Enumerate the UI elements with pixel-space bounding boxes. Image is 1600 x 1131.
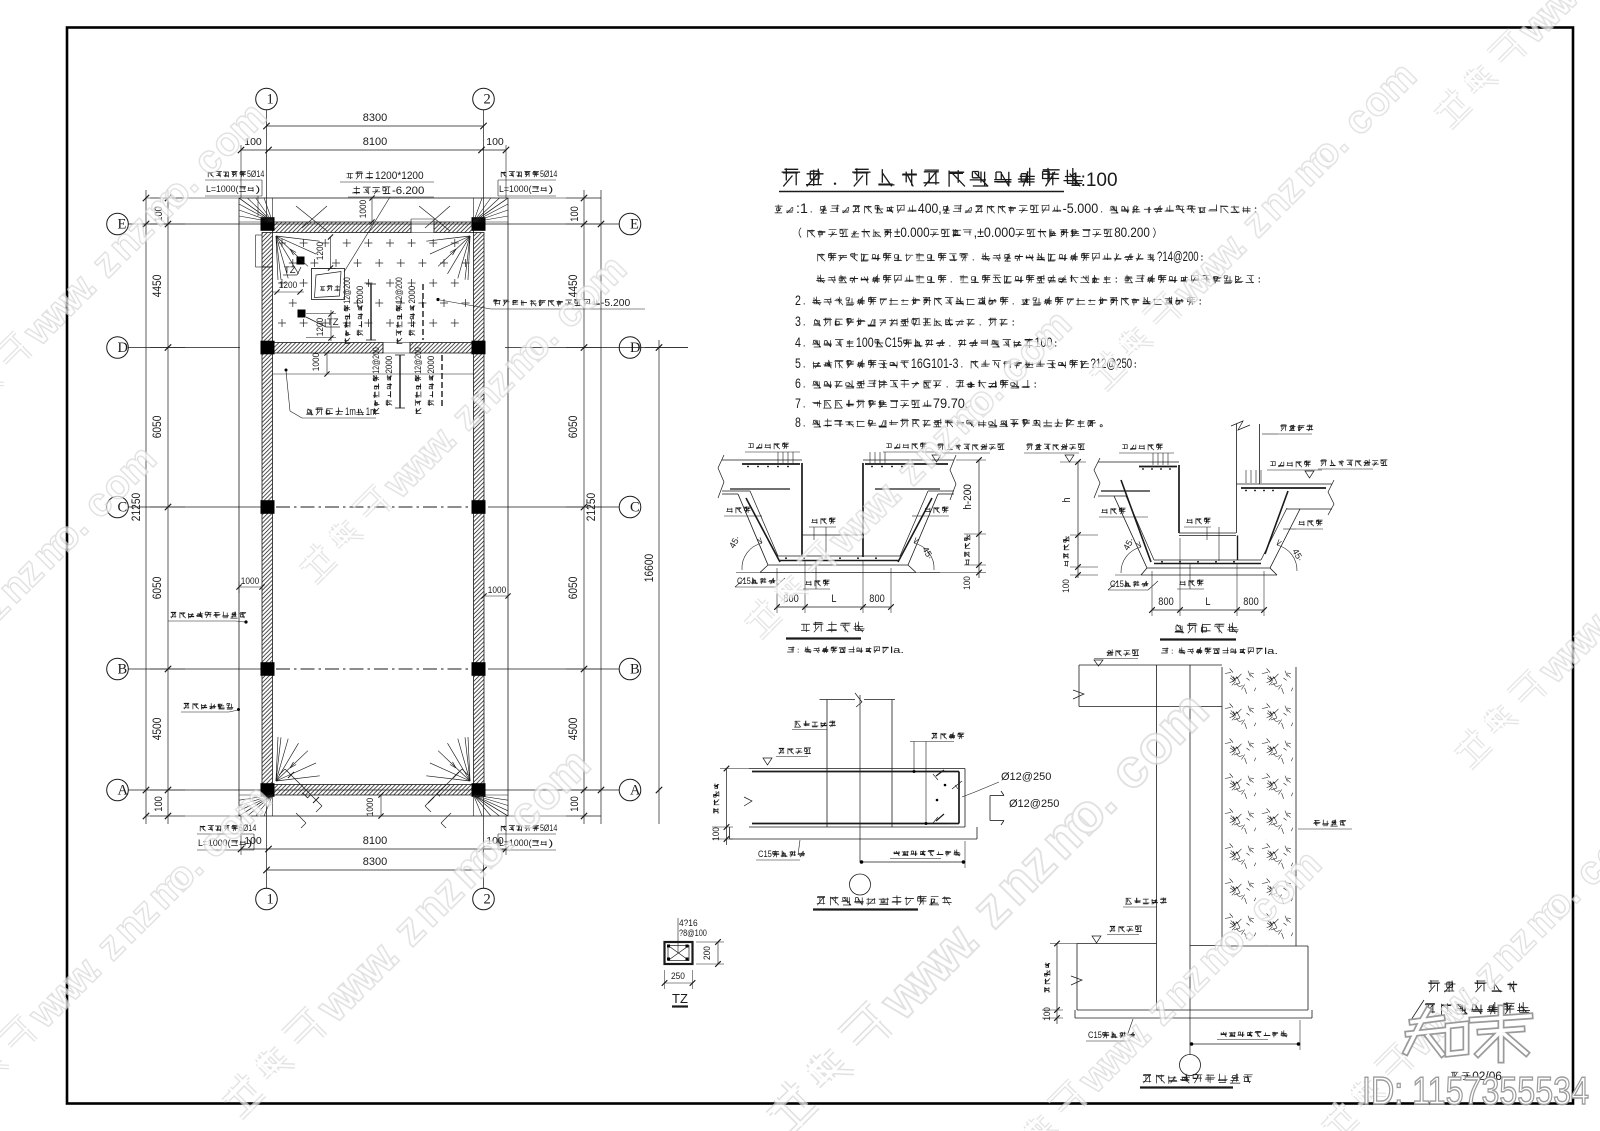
label radiating bars top-left: [205, 169, 264, 216]
svg-text:L=1000(: L=1000(: [499, 184, 532, 195]
svg-text:100: 100: [711, 827, 722, 841]
svg-text:1m: 1m: [366, 406, 377, 418]
grid bubble C right: [619, 496, 641, 518]
right dim 16600: [642, 340, 688, 824]
svg-text:100: 100: [1061, 579, 1072, 593]
svg-text:2: 2: [484, 892, 491, 908]
corner fan bottom-right: [426, 737, 508, 816]
svg-text:3: 3: [795, 314, 801, 329]
rebar notes upper (tank): [342, 277, 423, 343]
svg-text:100: 100: [569, 206, 581, 221]
svg-text:): ): [549, 838, 554, 849]
dim 1000 left raft offset: [236, 576, 264, 593]
svg-text:2000: 2000: [384, 356, 394, 374]
svg-text:12@200: 12@200: [394, 277, 404, 304]
TZ detail: [662, 918, 724, 1007]
svg-text:6050: 6050: [150, 576, 164, 599]
svg-text:100: 100: [856, 335, 874, 350]
axis line 1: [266, 110, 268, 888]
svg-text:4500: 4500: [566, 717, 580, 740]
svg-text:1000: 1000: [358, 200, 369, 218]
svg-text:80.200: 80.200: [1114, 225, 1150, 240]
left dim 21250: [129, 190, 149, 824]
svg-text:800: 800: [1158, 596, 1173, 608]
svg-text:ID: 1157355534: ID: 1157355534: [1362, 1070, 1589, 1113]
svg-text:1200: 1200: [315, 318, 326, 336]
grid bubble B left: [107, 658, 129, 680]
suction trough line: [273, 373, 474, 375]
svg-text:16600: 16600: [642, 553, 656, 582]
svg-text:8300: 8300: [363, 112, 387, 124]
svg-text:1200: 1200: [315, 242, 326, 260]
svg-text:6050: 6050: [566, 576, 580, 599]
axis line D: [128, 347, 688, 349]
svg-text:-6.200: -6.200: [392, 185, 424, 197]
rebar cross marks top: [296, 206, 450, 231]
left dim chain segments: [150, 190, 185, 824]
svg-text:2: 2: [484, 92, 491, 108]
dim 1200 vertical sump: [311, 234, 336, 270]
right dim chain segments: [566, 190, 601, 824]
dim 1000 bottom: [365, 792, 384, 818]
svg-text:6050: 6050: [566, 415, 580, 438]
dim 100/8100/100 top: [238, 136, 509, 198]
D wall: [273, 343, 474, 354]
svg-text:200: 200: [702, 946, 713, 960]
label raft contour: [181, 703, 240, 712]
label sump pit 1200x1200: [340, 170, 434, 272]
svg-text:D: D: [630, 340, 640, 356]
grid bubble E left: [107, 213, 129, 235]
svg-text:2: 2: [795, 293, 801, 308]
svg-text:1:100: 1:100: [1070, 170, 1118, 191]
main title: [779, 168, 1118, 192]
svg-text:-5.000: -5.000: [1063, 201, 1099, 216]
svg-text:A: A: [630, 783, 641, 799]
svg-text:12@200: 12@200: [413, 347, 423, 374]
svg-text:1000: 1000: [241, 576, 259, 587]
svg-text:A: A: [118, 783, 129, 799]
svg-text:TZ: TZ: [327, 317, 339, 328]
svg-text:5: 5: [795, 356, 801, 371]
svg-text:1000: 1000: [311, 353, 322, 371]
svg-text:1200: 1200: [279, 280, 297, 291]
svg-text:100: 100: [486, 136, 504, 148]
grid bubble B right: [619, 658, 641, 680]
svg-text:E: E: [630, 217, 639, 233]
svg-text:,±0.000: ,±0.000: [974, 225, 1016, 240]
svg-text:L=1000(: L=1000(: [206, 184, 239, 195]
svg-text:C15: C15: [758, 849, 772, 860]
svg-text:8100: 8100: [363, 136, 387, 148]
label radiating bars bottom-left: [197, 823, 256, 850]
svg-text:L: L: [831, 593, 836, 605]
corner fan bottom-left: [239, 737, 320, 816]
corner fan top-left: [239, 198, 320, 280]
svg-text:100: 100: [153, 796, 165, 811]
svg-text:1200*1200: 1200*1200: [375, 170, 424, 182]
dim 8300 top: [263, 112, 486, 129]
svg-text:8300: 8300: [363, 856, 387, 868]
svg-text:D: D: [118, 340, 128, 356]
grid bubble A right: [619, 779, 641, 801]
svg-text:16G101-3: 16G101-3: [911, 356, 959, 371]
grid bubble C left: [107, 496, 129, 518]
dim 1000 below D: [311, 350, 330, 376]
detail: suction trough section: [1024, 421, 1387, 657]
svg-text:7: 7: [795, 396, 801, 411]
axis line B: [128, 668, 619, 670]
TZ column 1: [283, 257, 305, 277]
grid bubble A left: [107, 779, 129, 801]
raft outline: [146, 198, 601, 816]
bottom wall A: [273, 785, 474, 796]
svg-text:6050: 6050: [150, 415, 164, 438]
grid bubble 1 bottom: [256, 888, 278, 910]
L dim bottom-left: [279, 769, 322, 828]
rebar notes lower (below D): [371, 347, 442, 413]
svg-text:400,: 400,: [918, 201, 942, 216]
svg-text:4450: 4450: [150, 274, 164, 297]
svg-text:250: 250: [671, 971, 685, 982]
sheet title text: [1411, 980, 1530, 1083]
svg-text:C15: C15: [885, 335, 903, 350]
label radiating bars top-right: [498, 169, 557, 196]
svg-text:): ): [248, 838, 253, 849]
svg-text:4500: 4500: [150, 717, 164, 740]
svg-text:5Ø14: 5Ø14: [540, 169, 557, 179]
notes block: [775, 201, 1260, 430]
svg-text:): ): [256, 184, 261, 195]
grid bubble E right: [619, 213, 641, 235]
right dim 21250: [584, 190, 604, 824]
grid bubble D right: [619, 337, 641, 359]
svg-text:8100: 8100: [363, 835, 387, 847]
label suction trough: [285, 369, 377, 419]
svg-text:1000: 1000: [488, 585, 506, 596]
dim 100/8100/100 bottom: [238, 816, 509, 855]
svg-text:TZ: TZ: [672, 991, 688, 1006]
top wall E: [273, 219, 474, 233]
axis line C: [128, 506, 619, 508]
axis line 2: [483, 110, 485, 888]
L dim bottom-right: [425, 769, 468, 828]
svg-text:C15: C15: [1110, 579, 1124, 590]
dim 8300 bottom: [263, 856, 486, 873]
dim 1200 horizontal sump: [273, 280, 305, 295]
svg-text:): ): [549, 184, 554, 195]
left wall: [256, 233, 273, 785]
svg-text:21250: 21250: [584, 492, 598, 521]
svg-text:5Ø14: 5Ø14: [247, 169, 264, 179]
TZ column 2: [298, 310, 341, 329]
svg-text:2000: 2000: [355, 286, 365, 304]
svg-text:1: 1: [267, 92, 274, 108]
grid bubble D left: [107, 337, 129, 359]
svg-text:100: 100: [1042, 1007, 1053, 1021]
svg-text:2000: 2000: [407, 286, 417, 304]
columns (filled): [261, 217, 486, 797]
svg-text:la.: la.: [890, 645, 904, 656]
znzmo logo: [1406, 1008, 1530, 1060]
right wall: [474, 233, 485, 785]
svg-text:C15: C15: [737, 576, 751, 587]
axis line A: [128, 789, 619, 791]
svg-text:800: 800: [869, 593, 884, 605]
svg-text:12@200: 12@200: [371, 347, 381, 374]
svg-text:1m: 1m: [345, 406, 356, 418]
svg-text:4: 4: [795, 335, 801, 350]
sump pit square: [312, 269, 345, 300]
detail: sump pit section: [718, 442, 1004, 656]
svg-text:la.: la.: [1264, 646, 1278, 657]
svg-text:12@200: 12@200: [342, 277, 352, 304]
dim 1200 vertical lower: [306, 310, 336, 341]
svg-text:2000: 2000: [426, 356, 436, 374]
svg-text:?8@100: ?8@100: [679, 928, 707, 939]
svg-text:B: B: [118, 662, 128, 678]
grid bubble 2 top: [473, 88, 495, 110]
dim 1000 right raft offset: [481, 585, 510, 599]
svg-text:Ø12@250: Ø12@250: [1001, 771, 1051, 783]
svg-text:8: 8: [795, 415, 801, 430]
grid bubble 1 top: [256, 88, 278, 110]
svg-text:6: 6: [795, 376, 801, 391]
corner fan top-right: [426, 198, 508, 280]
svg-text:1: 1: [267, 892, 274, 908]
svg-text:B: B: [630, 662, 640, 678]
svg-text:800: 800: [1243, 596, 1258, 608]
svg-text::1: :1: [796, 201, 808, 216]
label shaded area elevation: [436, 298, 645, 309]
svg-text:h: h: [1061, 497, 1073, 502]
detail: raft extension rubble masonry: [1042, 649, 1352, 1087]
svg-text:100: 100: [962, 576, 973, 590]
label radiating bars bottom-right: [498, 823, 557, 850]
detail: raft cantilever reinforcement: [711, 693, 1059, 910]
svg-text:1000: 1000: [365, 798, 376, 816]
grid bubble 2 bottom: [473, 888, 495, 910]
tank floor plus marks: [278, 239, 470, 327]
svg-text:±0.000: ±0.000: [894, 225, 930, 240]
ID number: [1362, 1070, 1589, 1113]
svg-text:C: C: [630, 500, 640, 516]
dim 1000 top (raft offset): [358, 195, 375, 224]
svg-text:L: L: [1205, 596, 1210, 608]
axis line E: [128, 223, 619, 225]
label raft masonry left: [168, 612, 248, 624]
svg-text:h-200: h-200: [962, 484, 974, 510]
